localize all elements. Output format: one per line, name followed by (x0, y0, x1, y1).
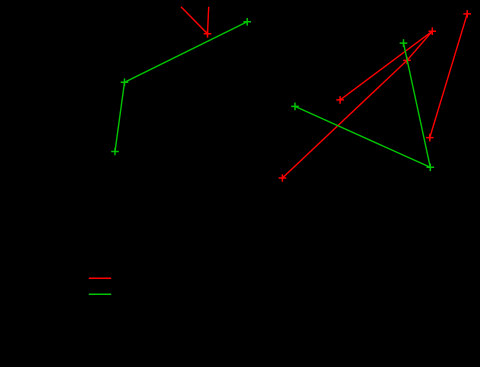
red marker I (426, 134, 434, 142)
red series segment I-K (wire) (430, 14, 467, 138)
red marker D (279, 174, 287, 182)
red marker F (336, 96, 344, 104)
red series V segment clipped at top (wire) (181, 7, 209, 34)
red series segment D-M-H-F (wire) (282, 31, 432, 178)
green series segment A-B-C (wire) (115, 22, 247, 152)
red marker H (429, 27, 437, 35)
green marker B (121, 79, 129, 87)
green marker C (243, 18, 251, 26)
legend red sample (89, 277, 111, 279)
green marker A (111, 148, 119, 156)
green marker G (400, 39, 408, 47)
red marker M (403, 57, 411, 65)
green series segment E-J-G (wire) (295, 43, 430, 167)
red marker K (463, 10, 471, 18)
green marker E (291, 103, 299, 111)
green marker J (427, 164, 435, 172)
legend green sample (89, 293, 111, 295)
red marker V (204, 30, 212, 38)
